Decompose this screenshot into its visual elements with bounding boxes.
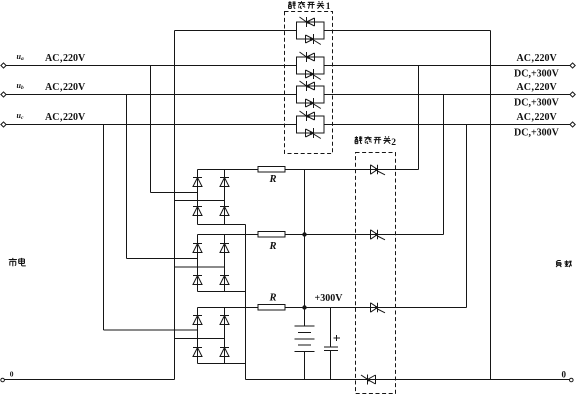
svg-text:1: 1 [326,2,331,12]
svg-text:+300V: +300V [315,293,344,304]
svg-text:DC,+300V: DC,+300V [514,68,560,79]
svg-text:2: 2 [391,138,396,148]
svg-text:0: 0 [562,370,567,380]
svg-text:AC,220V: AC,220V [517,112,558,123]
svg-text:DC,+300V: DC,+300V [514,127,560,138]
svg-text:AC,220V: AC,220V [517,53,558,64]
svg-text:0: 0 [10,370,14,379]
svg-text:AC,220V: AC,220V [45,82,86,93]
svg-text:DC,+300V: DC,+300V [514,97,560,108]
svg-text:R: R [269,241,277,252]
svg-text:R: R [269,174,277,185]
svg-text:AC,220V: AC,220V [517,82,558,93]
svg-text:AC,220V: AC,220V [45,53,86,64]
svg-text:R: R [269,293,277,304]
svg-text:AC,220V: AC,220V [45,112,86,123]
